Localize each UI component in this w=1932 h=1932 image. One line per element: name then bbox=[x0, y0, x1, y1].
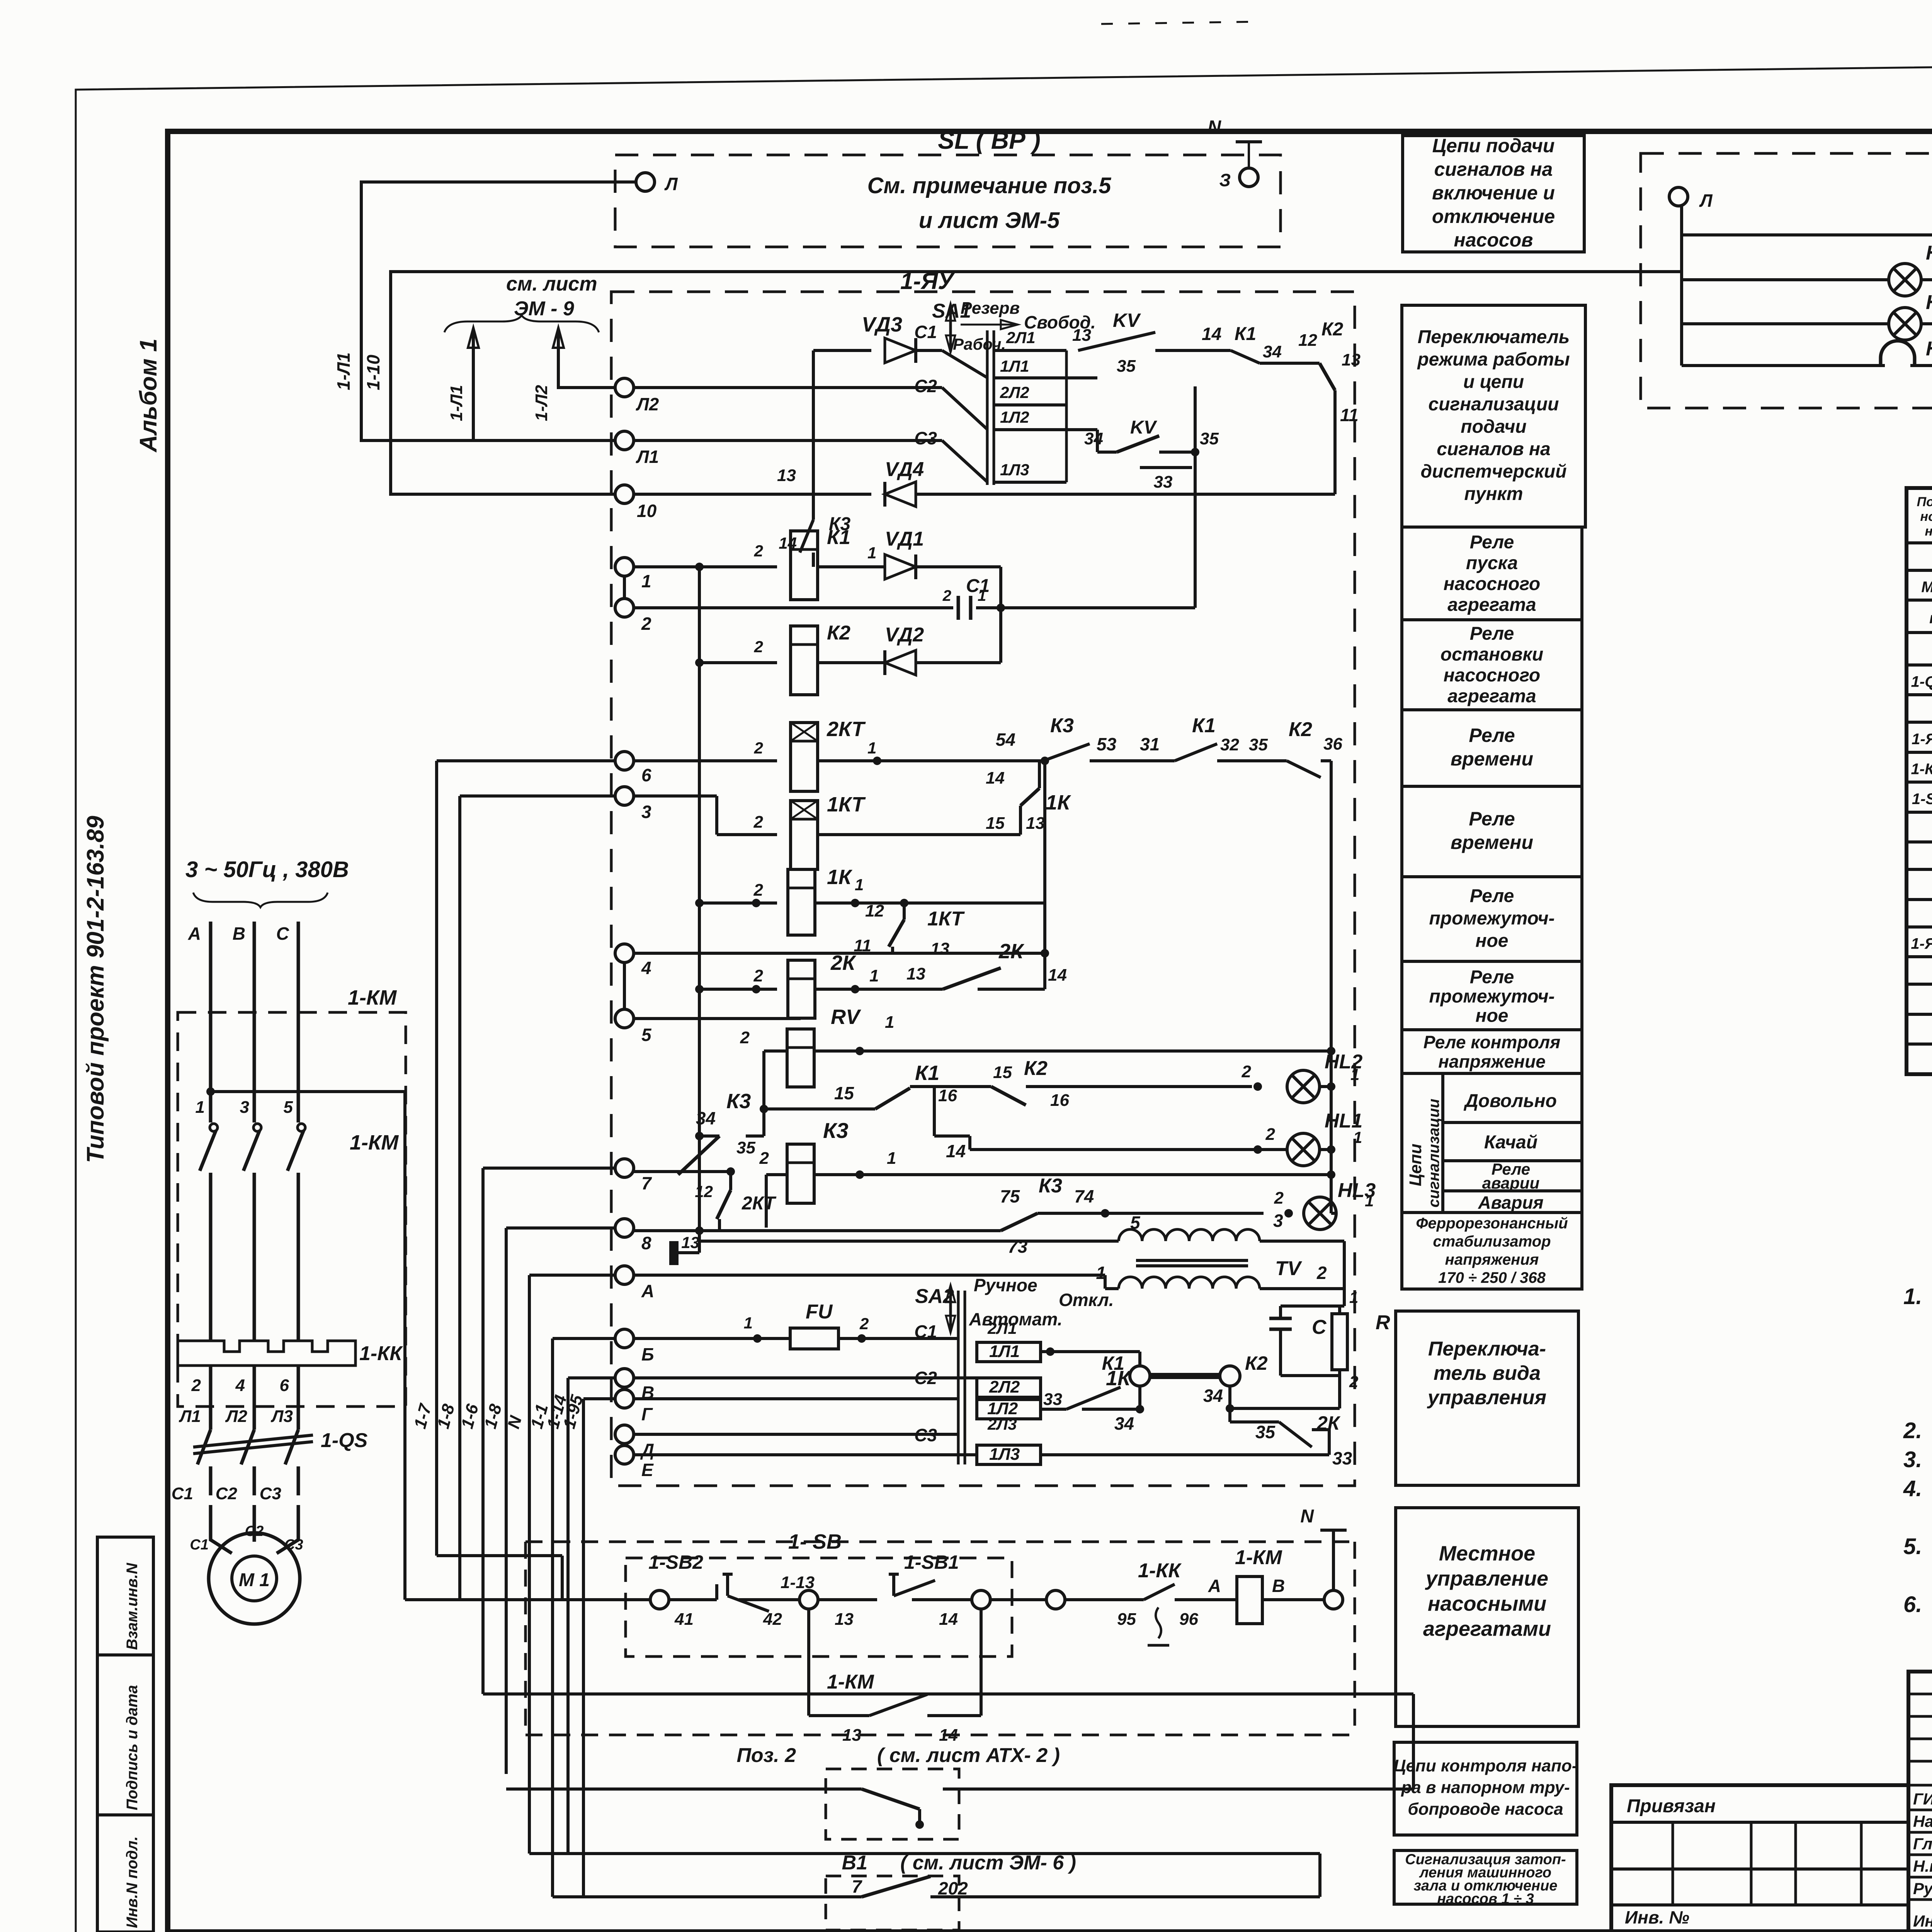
svg-text:13: 13 bbox=[777, 466, 796, 485]
lamp HL1 of 1-YaS bbox=[1682, 278, 1889, 281]
svg-text:1-ЯУ: 1-ЯУ bbox=[900, 268, 955, 294]
svg-text:FU: FU bbox=[806, 1301, 833, 1323]
svg-text:KV: KV bbox=[1130, 417, 1158, 438]
terminal circle 41 bbox=[650, 1590, 669, 1609]
svg-text:Инв.N подл.: Инв.N подл. bbox=[124, 1836, 141, 1928]
lamp HL2 of 1-YaS bbox=[1682, 322, 1889, 325]
svg-text:Цепи: Цепи bbox=[1406, 1144, 1425, 1186]
contact 2K below jumper bbox=[1228, 1386, 1231, 1422]
svg-text:5: 5 bbox=[641, 1025, 652, 1045]
terminal 7 bbox=[615, 1159, 634, 1177]
description box: signal feed circuits bbox=[1403, 136, 1584, 252]
wire from RC network to contact 34 node bbox=[1230, 1407, 1340, 1410]
svg-text:7: 7 bbox=[852, 1876, 862, 1896]
stamp box Podpis i data bbox=[97, 1655, 153, 1815]
wire row G into SA2 bbox=[634, 1397, 958, 1400]
svg-text:3: 3 bbox=[641, 802, 651, 822]
svg-text:А: А bbox=[1208, 1576, 1221, 1596]
terminal 4 bbox=[615, 944, 634, 963]
svg-text:С2: С2 bbox=[914, 376, 937, 396]
table row magnetic starter bbox=[1906, 781, 1932, 784]
svg-text:1-SB2: 1-SB2 bbox=[648, 1551, 703, 1573]
wire 34 to jumper K1 bbox=[1082, 1408, 1140, 1411]
svg-text:12: 12 bbox=[865, 901, 884, 920]
svg-text:1К: 1К bbox=[827, 866, 853, 889]
svg-text:См. примечание поз.5: См. примечание поз.5 bbox=[867, 173, 1111, 198]
svg-text:1: 1 bbox=[887, 1149, 896, 1168]
wire to thermal contact bbox=[1046, 1590, 1065, 1609]
svg-text:включение и: включение и bbox=[1432, 182, 1555, 204]
signal row Kachay bbox=[1443, 1159, 1582, 1162]
svg-text:VД3: VД3 bbox=[862, 313, 902, 336]
svg-text:33: 33 bbox=[1332, 1448, 1352, 1468]
svg-text:5: 5 bbox=[284, 1098, 293, 1117]
svg-text:К3: К3 bbox=[1039, 1175, 1062, 1197]
svg-text:Гл.спец.: Гл.спец. bbox=[1913, 1835, 1932, 1853]
svg-text:С: С bbox=[276, 923, 289, 944]
stop button 1-SB2 bbox=[669, 1598, 717, 1601]
svg-text:Реле: Реле bbox=[1470, 967, 1514, 988]
svg-text:33: 33 bbox=[1154, 473, 1173, 492]
level sensor circuit B1 loop top bbox=[529, 1852, 1320, 1855]
svg-text:Д: Д bbox=[640, 1440, 654, 1460]
terminal E bbox=[615, 1446, 634, 1464]
svg-text:остановки: остановки bbox=[1440, 645, 1543, 665]
svg-text:2: 2 bbox=[753, 966, 764, 985]
description box: local control bbox=[1396, 1508, 1578, 1726]
terminal 3 of SL box with neutral N bbox=[1240, 168, 1258, 187]
element list table frame bbox=[1906, 488, 1932, 1074]
table row signal cell AC-373 bbox=[1906, 955, 1932, 958]
svg-text:2: 2 bbox=[1265, 1125, 1276, 1144]
svg-text:2: 2 bbox=[759, 1149, 769, 1168]
svg-text:N: N bbox=[1300, 1506, 1314, 1527]
arrow wire 1-L2 to sheet EM-9 bbox=[558, 331, 615, 388]
svg-text:Позицион-: Позицион- bbox=[1917, 495, 1932, 509]
time relay coil 2KT bbox=[634, 759, 777, 762]
svg-text:1: 1 bbox=[978, 587, 986, 604]
svg-text:и лист ЭМ-5: и лист ЭМ-5 bbox=[919, 208, 1060, 233]
svg-text:Реле: Реле bbox=[1470, 886, 1514, 906]
svg-text:бопроводе насоса: бопроводе насоса bbox=[1408, 1800, 1563, 1819]
svg-text:1-ЯС÷3-ЯС: 1-ЯС÷3-ЯС bbox=[1911, 935, 1932, 952]
svg-text:Переключа-: Переключа- bbox=[1428, 1338, 1546, 1360]
description box: pump start relay bbox=[1402, 527, 1582, 620]
fuse FU on row B bbox=[634, 1337, 790, 1340]
description box: mode switch circuits bbox=[1402, 305, 1585, 527]
svg-text:пункт: пункт bbox=[1464, 484, 1523, 504]
transformer core bars bbox=[1136, 1259, 1248, 1262]
svg-text:2: 2 bbox=[1349, 1372, 1358, 1391]
thermal relay heater 1-KK bbox=[178, 1341, 355, 1366]
terminal L1 bbox=[615, 431, 634, 450]
capacitor C1 on row 2 bbox=[634, 606, 953, 609]
svg-text:С1: С1 bbox=[914, 1321, 937, 1342]
svg-text:15: 15 bbox=[834, 1083, 855, 1103]
svg-text:1Л3: 1Л3 bbox=[1000, 461, 1029, 479]
svg-text:15: 15 bbox=[986, 814, 1005, 833]
svg-text:1: 1 bbox=[885, 1013, 894, 1032]
svg-text:34: 34 bbox=[1084, 429, 1103, 448]
description box: intermediate relay 2 bbox=[1402, 961, 1582, 1030]
svg-text:2: 2 bbox=[1274, 1189, 1284, 1207]
terminal V bbox=[615, 1369, 634, 1387]
svg-text:К1: К1 bbox=[827, 526, 850, 549]
svg-text:1-10: 1-10 bbox=[363, 355, 383, 390]
table header row bbox=[1906, 541, 1932, 544]
wire terminal 4 row bbox=[634, 952, 1045, 955]
svg-text:Ручное: Ручное bbox=[974, 1275, 1037, 1295]
svg-text:42: 42 bbox=[763, 1610, 782, 1629]
svg-text:1: 1 bbox=[867, 544, 876, 562]
svg-text:16: 16 bbox=[1050, 1091, 1069, 1110]
svg-text:5.: 5. bbox=[1903, 1534, 1922, 1559]
wire bundle vertical risers bbox=[437, 759, 615, 762]
description box: flooding signal bbox=[1394, 1850, 1577, 1904]
svg-text:аварии: аварии bbox=[1482, 1174, 1540, 1192]
selector jog C1 bbox=[942, 350, 988, 378]
contact K1 row 1 bbox=[1231, 350, 1260, 363]
svg-text:2: 2 bbox=[859, 1315, 869, 1333]
resistor R bbox=[1332, 1314, 1347, 1370]
svg-text:С3: С3 bbox=[914, 1425, 937, 1445]
description box: pump stop relay bbox=[1402, 620, 1582, 710]
relay coil 2K bbox=[699, 988, 777, 991]
pressure control circuit wire bbox=[483, 1692, 1413, 1696]
svg-text:1-QS: 1-QS bbox=[321, 1429, 368, 1452]
svg-text:1: 1 bbox=[1365, 1192, 1374, 1210]
stamp box Inv.N podl. bbox=[97, 1815, 153, 1932]
terminal L of SL box bbox=[636, 173, 655, 191]
switch SA2 contact 1L2 bbox=[977, 1400, 1041, 1419]
svg-text:32: 32 bbox=[1220, 735, 1239, 754]
motor M1 bbox=[209, 1533, 300, 1624]
table row control cell AN-370 bbox=[1906, 751, 1932, 754]
svg-text:Л2: Л2 bbox=[225, 1407, 247, 1426]
svg-text:34: 34 bbox=[696, 1108, 716, 1128]
stabilizer RC network bbox=[1343, 1241, 1346, 1306]
svg-text:14: 14 bbox=[946, 1141, 966, 1161]
svg-text:Б: Б bbox=[641, 1344, 654, 1364]
svg-text:1: 1 bbox=[641, 571, 651, 591]
diode VD2 bbox=[818, 661, 886, 664]
svg-text:агрегата: агрегата bbox=[1447, 686, 1536, 707]
svg-text:2: 2 bbox=[942, 587, 951, 604]
wire terminal 7 row bbox=[634, 1168, 766, 1168]
svg-text:73: 73 bbox=[1008, 1236, 1028, 1257]
terminal L of 1-YaS bbox=[1669, 187, 1688, 206]
svg-text:34: 34 bbox=[1114, 1413, 1134, 1434]
svg-text:13: 13 bbox=[1072, 326, 1091, 345]
svg-text:13: 13 bbox=[835, 1610, 854, 1629]
wire K3 coil left lead to bottom row bbox=[765, 1175, 768, 1228]
svg-text:Н.контр.: Н.контр. bbox=[1913, 1857, 1932, 1875]
wire 14 from contact K1 bbox=[933, 1087, 936, 1136]
mode switch SA1 bbox=[986, 330, 989, 485]
wire terminal 5 row to coil 2K bbox=[634, 1017, 801, 1020]
table row electrode sensor bbox=[1906, 898, 1932, 901]
svg-text:поз. 2: поз. 2 bbox=[1929, 610, 1932, 627]
svg-text:1: 1 bbox=[1350, 1065, 1359, 1083]
svg-text:отключение: отключение bbox=[1432, 206, 1555, 227]
svg-text:Л1: Л1 bbox=[636, 447, 659, 467]
svg-text:14: 14 bbox=[939, 1610, 958, 1629]
transformer TV secondary bbox=[1119, 1277, 1260, 1289]
svg-text:35: 35 bbox=[736, 1138, 755, 1157]
svg-text:тель вида: тель вида bbox=[1434, 1362, 1541, 1384]
terminal and neutral N local bbox=[1324, 1590, 1343, 1609]
svg-text:1К: 1К bbox=[1046, 791, 1071, 814]
svg-text:Реле: Реле bbox=[1469, 724, 1515, 746]
table section U mekhanizma bbox=[1906, 569, 1932, 572]
wire row L2 bbox=[634, 386, 942, 389]
svg-text:3: 3 bbox=[240, 1098, 249, 1117]
pushbutton station box 1-SB bbox=[626, 1558, 1012, 1656]
svg-text:Л1: Л1 bbox=[179, 1407, 201, 1426]
terminal 6 bbox=[615, 752, 634, 770]
contact K3 34-35 bbox=[695, 1132, 704, 1140]
svg-text:времени: времени bbox=[1451, 748, 1533, 770]
contact K3 73-75 and lamp HL3 bbox=[999, 1229, 1002, 1232]
jumper K1-K2 (removable link) bbox=[1130, 1366, 1150, 1386]
pressure contact poz.2 bbox=[506, 1787, 862, 1791]
arrow wire 1-L1 to sheet EM-9 bbox=[472, 331, 475, 440]
svg-text:10: 10 bbox=[637, 501, 657, 521]
svg-text:2: 2 bbox=[740, 1028, 750, 1047]
svg-text:Переключатель: Переключатель bbox=[1418, 327, 1570, 347]
local control dashed boundary bbox=[526, 1541, 1355, 1543]
svg-text:насосов: насосов bbox=[1454, 229, 1533, 251]
table row pushbutton post bbox=[1906, 811, 1932, 814]
svg-text:1-SB÷3-SB: 1-SB÷3-SB bbox=[1912, 791, 1932, 808]
svg-text:4: 4 bbox=[235, 1376, 245, 1395]
svg-text:2Л2: 2Л2 bbox=[1000, 383, 1029, 401]
svg-text:1-КК: 1-КК bbox=[359, 1342, 403, 1365]
svg-text:VД1: VД1 bbox=[885, 528, 924, 550]
relay coil K2 bbox=[699, 661, 777, 664]
svg-text:см. лист: см. лист bbox=[506, 273, 597, 295]
contact 2KT vertical on rows 7-8 bbox=[729, 1172, 732, 1190]
terminal circle right of 1-SB bbox=[972, 1590, 990, 1609]
svg-text:1: 1 bbox=[1349, 1288, 1358, 1306]
svg-text:ра в напорном тру-: ра в напорном тру- bbox=[1401, 1778, 1570, 1797]
terminal A bbox=[615, 1266, 634, 1284]
contact KV 34-35 on row 1L2 bbox=[1066, 428, 1097, 431]
svg-text:2: 2 bbox=[1316, 1263, 1327, 1283]
contact K3 row 6 bbox=[1020, 759, 1043, 762]
contact KV row 1 bbox=[1078, 332, 1155, 350]
svg-text:31: 31 bbox=[1140, 734, 1160, 754]
svg-text:К3: К3 bbox=[823, 1118, 849, 1143]
svg-text:и цепи: и цепи bbox=[1463, 372, 1524, 392]
svg-text:С2: С2 bbox=[245, 1523, 264, 1539]
svg-text:С: С bbox=[1312, 1316, 1327, 1338]
phase A wire bbox=[209, 922, 213, 1122]
thermal relay contact 1-KK bbox=[1121, 1598, 1144, 1601]
terminal circle 1-13 bbox=[799, 1590, 818, 1609]
svg-text:НА: НА bbox=[1926, 338, 1932, 360]
terminal 1 bbox=[615, 558, 634, 576]
svg-text:Нач.отд.: Нач.отд. bbox=[1913, 1812, 1932, 1830]
table row EKM-1U bbox=[1906, 663, 1932, 667]
svg-text:Л: Л bbox=[1699, 190, 1713, 211]
svg-text:2: 2 bbox=[754, 542, 763, 560]
terminal B bbox=[615, 1329, 634, 1348]
svg-text:режима работы: режима работы bbox=[1417, 349, 1570, 370]
neutral bus of control cell bbox=[1330, 761, 1333, 1213]
svg-text:Л2: Л2 bbox=[636, 394, 659, 414]
svg-text:Е: Е bbox=[641, 1460, 654, 1480]
terminal 5 bbox=[615, 1009, 634, 1028]
left bus of control cell bbox=[698, 567, 701, 1136]
svg-text:напряжение: напряжение bbox=[1438, 1051, 1546, 1071]
sensor B1 contact bbox=[553, 1895, 862, 1898]
stamp box Vzam.inv.N bbox=[97, 1537, 153, 1655]
svg-text:54: 54 bbox=[996, 730, 1015, 750]
svg-text:13: 13 bbox=[681, 1233, 699, 1252]
svg-text:7: 7 bbox=[641, 1173, 652, 1193]
svg-text:К2: К2 bbox=[1245, 1352, 1268, 1374]
svg-text:4: 4 bbox=[641, 958, 651, 978]
svg-text:Резерв: Резерв bbox=[961, 299, 1020, 318]
svg-text:14: 14 bbox=[1048, 966, 1067, 985]
svg-text:( см. лист ЭМ- 6 ): ( см. лист ЭМ- 6 ) bbox=[900, 1852, 1076, 1874]
wire row V into SA2 bbox=[634, 1376, 977, 1379]
svg-text:А: А bbox=[641, 1281, 654, 1301]
svg-text:Подпись и дата: Подпись и дата bbox=[124, 1685, 141, 1810]
svg-text:сигналов на: сигналов на bbox=[1434, 158, 1553, 180]
svg-text:VД2: VД2 bbox=[885, 624, 924, 646]
svg-text:ное обоз-: ное обоз- bbox=[1920, 509, 1932, 524]
svg-text:1-13: 1-13 bbox=[781, 1573, 815, 1592]
svg-text:управление: управление bbox=[1425, 1567, 1548, 1590]
svg-text:KV: KV bbox=[1113, 310, 1141, 331]
packet switch 1-QS bbox=[193, 1435, 313, 1447]
svg-text:33: 33 bbox=[1043, 1390, 1062, 1409]
table row manometer bbox=[1906, 631, 1932, 634]
wire row L1 into switch bbox=[634, 439, 942, 442]
signal row Rele avarii bbox=[1443, 1189, 1582, 1192]
switch SA2 contact 1L3 bbox=[977, 1445, 1041, 1464]
svg-text:2КТ: 2КТ bbox=[742, 1193, 777, 1214]
wires to motor bbox=[209, 1505, 213, 1522]
svg-text:агрегатами: агрегатами bbox=[1423, 1617, 1551, 1641]
terminal 10 bbox=[615, 485, 634, 503]
svg-text:насосными: насосными bbox=[1428, 1592, 1546, 1616]
svg-text:В1: В1 bbox=[842, 1852, 867, 1874]
svg-text:Поз. 2: Поз. 2 bbox=[736, 1744, 796, 1767]
svg-text:Инв. №: Инв. № bbox=[1625, 1907, 1689, 1927]
svg-text:1-SB1: 1-SB1 bbox=[904, 1551, 959, 1573]
svg-text:1-КМ: 1-КМ bbox=[1235, 1546, 1282, 1569]
table section drain pit bbox=[1906, 868, 1932, 871]
wire terminal A row bbox=[634, 1274, 1105, 1277]
svg-text:13: 13 bbox=[906, 964, 925, 983]
contactor box 1-KM bbox=[178, 1012, 406, 1406]
svg-text:3 ~ 50Гц , 380В: 3 ~ 50Гц , 380В bbox=[185, 857, 349, 882]
description box: intermediate relay 1 bbox=[1402, 877, 1582, 961]
phase B wire bbox=[253, 922, 256, 1122]
holding contact 1-KM bbox=[807, 1609, 810, 1716]
svg-text:С1: С1 bbox=[190, 1537, 209, 1553]
table row manometric level sensor bbox=[1906, 1043, 1932, 1046]
phase C wire bbox=[297, 922, 300, 1122]
description box: time relay 1 bbox=[1402, 710, 1582, 786]
svg-text:1-КМ: 1-КМ bbox=[827, 1671, 874, 1693]
table section control point bbox=[1906, 925, 1932, 929]
svg-text:15: 15 bbox=[993, 1063, 1012, 1082]
table row PKE-212-2U3 bbox=[1906, 840, 1932, 844]
svg-text:Цепи контроля напо-: Цепи контроля напо- bbox=[1393, 1757, 1577, 1776]
svg-text:35: 35 bbox=[1200, 429, 1219, 448]
description box: time relay 2 bbox=[1402, 786, 1582, 877]
svg-text:Местное: Местное bbox=[1439, 1542, 1535, 1565]
description box: signal circuits group bbox=[1402, 1073, 1582, 1213]
svg-text:К3: К3 bbox=[1050, 714, 1074, 737]
svg-text:Альбом 1: Альбом 1 bbox=[135, 338, 162, 453]
svg-text:Типовой проект 901-2-163.89: Типовой проект 901-2-163.89 bbox=[82, 816, 109, 1163]
wire riser VD3 to row 10 bbox=[812, 350, 815, 494]
svg-text:1Л2: 1Л2 bbox=[1000, 408, 1029, 426]
svg-text:насосного: насосного bbox=[1444, 665, 1540, 686]
svg-text:В: В bbox=[233, 923, 245, 944]
svg-text:Реле: Реле bbox=[1470, 532, 1514, 553]
svg-text:1- SB: 1- SB bbox=[788, 1530, 842, 1553]
svg-text:13: 13 bbox=[1342, 350, 1361, 369]
description box: control type switch bbox=[1396, 1311, 1578, 1485]
svg-text:К3: К3 bbox=[726, 1090, 751, 1113]
svg-text:75: 75 bbox=[1000, 1186, 1020, 1206]
svg-text:промежуточ-: промежуточ- bbox=[1429, 986, 1554, 1007]
svg-text:промежуточ-: промежуточ- bbox=[1429, 908, 1554, 929]
svg-text:стабилизатор: стабилизатор bbox=[1433, 1233, 1551, 1250]
svg-text:Рук.гр.: Рук.гр. bbox=[1913, 1879, 1932, 1898]
svg-text:74: 74 bbox=[1074, 1186, 1094, 1206]
scan specks top bbox=[1101, 22, 1260, 24]
svg-text:13: 13 bbox=[1026, 814, 1045, 833]
svg-text:насосов 1 ÷ 3: насосов 1 ÷ 3 bbox=[1437, 1891, 1534, 1907]
svg-text:М1 ÷ М3: М1 ÷ М3 bbox=[1921, 579, 1932, 596]
level sensor loop right end bbox=[1318, 1854, 1321, 1897]
svg-text:14: 14 bbox=[939, 1726, 958, 1745]
relay coil 1K1 bbox=[699, 901, 777, 905]
svg-text:Привязан: Привязан bbox=[1627, 1796, 1716, 1816]
signal cell box 1-YaS bbox=[1641, 153, 1932, 408]
svg-text:35: 35 bbox=[1255, 1422, 1276, 1442]
terminal 8 bbox=[615, 1219, 634, 1237]
svg-text:Инжен.: Инжен. bbox=[1913, 1912, 1932, 1930]
svg-text:Взам.инв.N: Взам.инв.N bbox=[124, 1563, 141, 1650]
svg-text:35: 35 bbox=[1249, 735, 1268, 754]
title block frame bbox=[1908, 1672, 1932, 1932]
svg-text:времени: времени bbox=[1451, 832, 1533, 853]
svg-text:Качай: Качай bbox=[1484, 1132, 1537, 1153]
contact 1KT vertical 12-11 bbox=[903, 903, 906, 920]
svg-text:1Л3: 1Л3 bbox=[989, 1445, 1020, 1464]
switch SA2 contact 2L2 bbox=[977, 1378, 1041, 1397]
svg-text:53: 53 bbox=[1097, 734, 1117, 754]
diode VD4 bbox=[885, 482, 916, 507]
svg-text:2К: 2К bbox=[830, 951, 857, 975]
svg-text:К1: К1 bbox=[915, 1061, 939, 1085]
wire risers to contact rows bbox=[1194, 386, 1197, 608]
svg-text:95: 95 bbox=[1117, 1610, 1136, 1629]
wires to switch 1-QS bbox=[209, 1366, 213, 1430]
svg-text:41: 41 bbox=[674, 1610, 694, 1629]
svg-text:напряжения: напряжения bbox=[1445, 1251, 1539, 1268]
svg-text:2Л1: 2Л1 bbox=[987, 1319, 1017, 1337]
wire row 1 of 1-YaS bbox=[1682, 233, 1932, 236]
